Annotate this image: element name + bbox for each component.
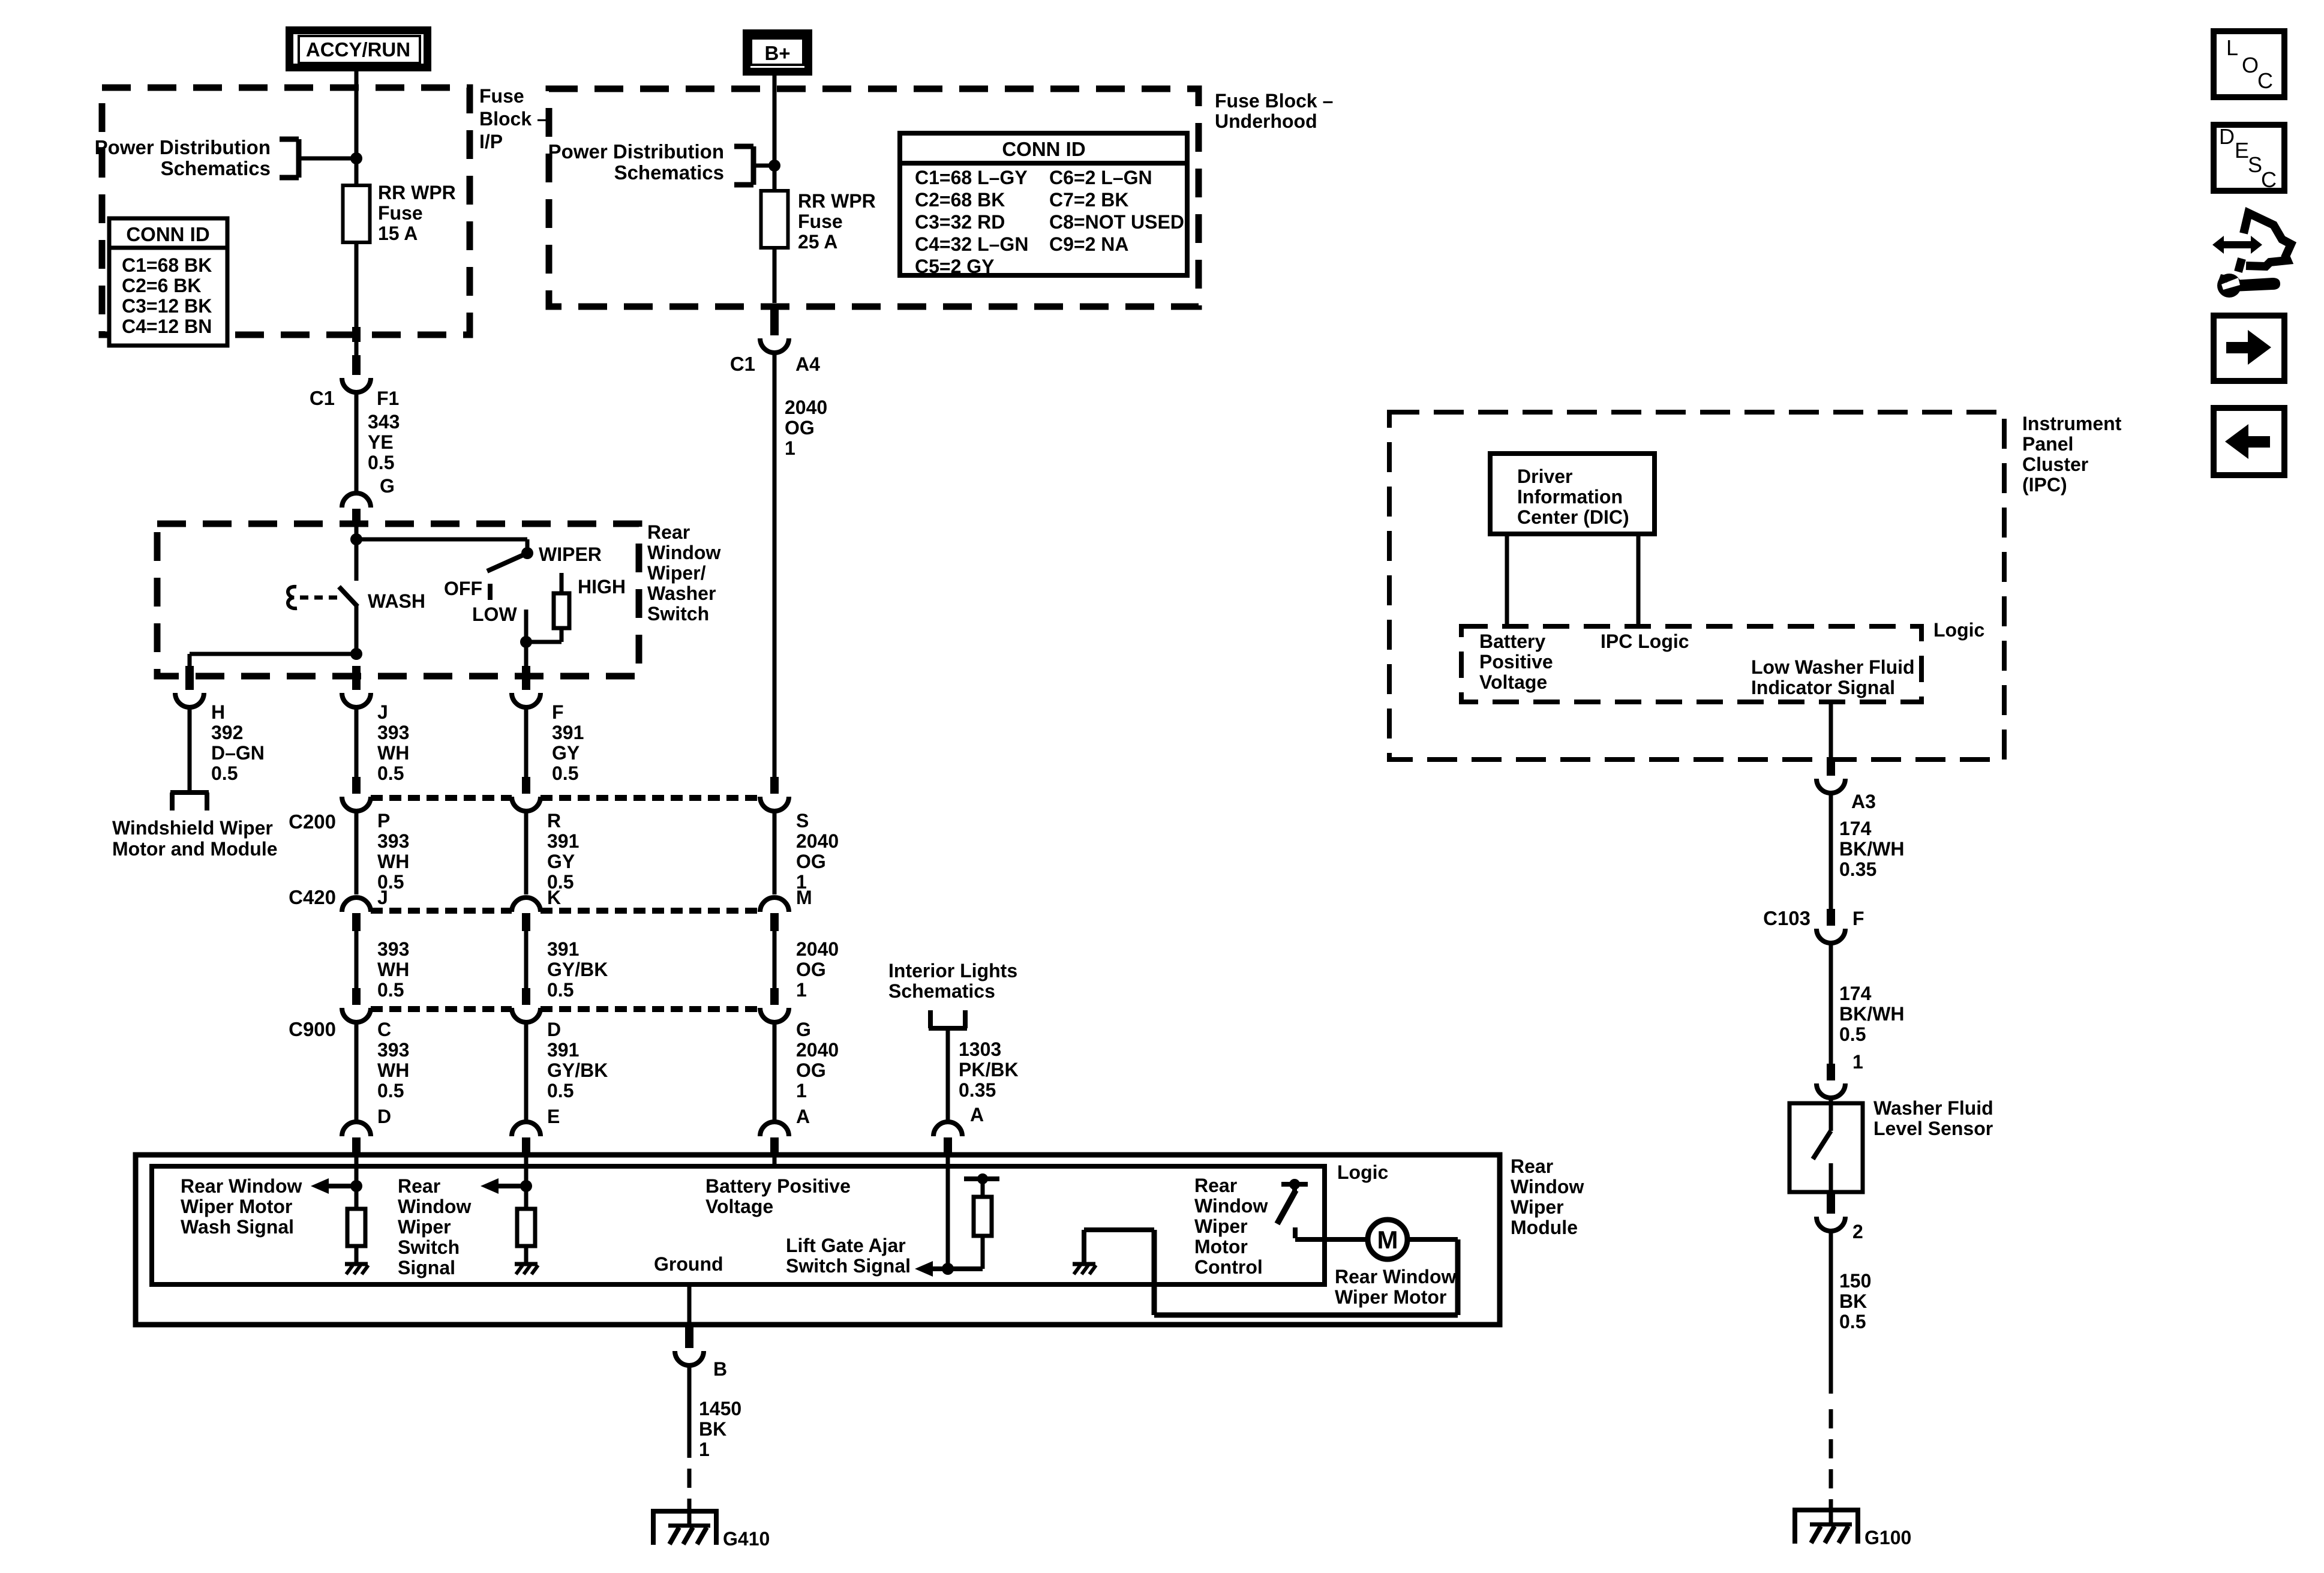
svg-text:D: D <box>547 1019 561 1040</box>
svg-text:OFF: OFF <box>444 578 482 599</box>
svg-text:(IPC): (IPC) <box>2022 474 2067 496</box>
svg-text:C3=12 BK: C3=12 BK <box>122 295 212 317</box>
svg-text:Wiper: Wiper <box>398 1216 451 1238</box>
svg-text:1: 1 <box>699 1439 710 1460</box>
svg-text:Rear: Rear <box>1194 1175 1237 1196</box>
svg-text:0.5: 0.5 <box>1839 1311 1866 1332</box>
svg-text:WH: WH <box>377 1059 409 1081</box>
svg-text:Level Sensor: Level Sensor <box>1873 1118 1993 1139</box>
svg-text:Information: Information <box>1517 486 1623 508</box>
svg-text:BK: BK <box>1839 1290 1867 1312</box>
svg-text:C3=32 RD: C3=32 RD <box>915 211 1005 233</box>
svg-text:OG: OG <box>796 959 826 980</box>
svg-text:Power Distribution: Power Distribution <box>548 140 724 163</box>
svg-text:C9=2 NA: C9=2 NA <box>1049 233 1129 255</box>
svg-text:2040: 2040 <box>796 938 839 960</box>
svg-text:0.5: 0.5 <box>377 763 404 784</box>
svg-text:174: 174 <box>1839 818 1872 839</box>
svg-text:Battery Positive: Battery Positive <box>705 1175 851 1197</box>
svg-text:Fuse: Fuse <box>479 85 524 107</box>
svg-text:2: 2 <box>1852 1221 1863 1242</box>
svg-text:393: 393 <box>377 1039 409 1061</box>
svg-text:WASH: WASH <box>368 590 425 612</box>
svg-text:Driver: Driver <box>1517 466 1573 487</box>
svg-text:CONN ID: CONN ID <box>126 223 209 245</box>
svg-text:HIGH: HIGH <box>578 576 626 598</box>
svg-text:393: 393 <box>377 722 409 743</box>
svg-text:391: 391 <box>547 938 579 960</box>
svg-text:G100: G100 <box>1864 1527 1911 1548</box>
svg-text:D: D <box>377 1106 391 1127</box>
svg-text:G: G <box>796 1019 811 1040</box>
svg-text:1: 1 <box>785 437 795 459</box>
svg-text:0.5: 0.5 <box>552 763 578 784</box>
svg-text:0.35: 0.35 <box>1839 858 1876 880</box>
svg-text:Module: Module <box>1511 1217 1578 1238</box>
svg-text:LOW: LOW <box>472 604 517 625</box>
svg-text:0.5: 0.5 <box>377 1080 404 1101</box>
svg-text:L: L <box>2226 35 2238 60</box>
svg-text:YE: YE <box>368 431 394 453</box>
svg-text:Washer Fluid: Washer Fluid <box>1873 1097 1993 1119</box>
svg-text:C: C <box>377 1019 391 1040</box>
svg-text:1: 1 <box>796 1080 807 1101</box>
svg-text:1: 1 <box>796 979 807 1001</box>
svg-text:M: M <box>796 887 812 908</box>
svg-text:I/P: I/P <box>479 131 503 152</box>
svg-text:Ground: Ground <box>654 1253 723 1275</box>
svg-text:Battery: Battery <box>1479 631 1545 652</box>
svg-text:C2=6 BK: C2=6 BK <box>122 275 202 296</box>
svg-text:GY: GY <box>547 851 575 872</box>
svg-text:F: F <box>1852 908 1864 929</box>
svg-text:Power Distribution: Power Distribution <box>95 136 271 158</box>
svg-text:RR WPR: RR WPR <box>798 190 876 212</box>
svg-text:O: O <box>2242 53 2259 77</box>
svg-text:PK/BK: PK/BK <box>959 1059 1019 1080</box>
svg-text:Logic: Logic <box>1337 1161 1388 1183</box>
svg-text:0.5: 0.5 <box>1839 1023 1866 1045</box>
svg-text:0.5: 0.5 <box>377 979 404 1001</box>
svg-text:OG: OG <box>785 417 815 439</box>
svg-text:C1: C1 <box>310 387 335 409</box>
svg-text:Underhood: Underhood <box>1215 110 1317 132</box>
svg-text:WH: WH <box>377 959 409 980</box>
svg-text:393: 393 <box>377 830 409 852</box>
svg-text:2040: 2040 <box>796 1039 839 1061</box>
svg-text:E: E <box>2235 138 2249 163</box>
svg-text:Low Washer Fluid: Low Washer Fluid <box>1751 656 1915 678</box>
svg-text:392: 392 <box>211 722 243 743</box>
svg-text:C1=68 L–GY: C1=68 L–GY <box>915 167 1028 188</box>
svg-text:Switch: Switch <box>647 603 709 625</box>
svg-text:CONN ID: CONN ID <box>1002 138 1085 160</box>
svg-text:BK/WH: BK/WH <box>1839 838 1904 860</box>
svg-text:Rear: Rear <box>1511 1155 1553 1177</box>
svg-text:Instrument: Instrument <box>2022 413 2122 434</box>
svg-text:C200: C200 <box>289 810 336 833</box>
svg-text:Rear Window: Rear Window <box>181 1175 302 1197</box>
svg-text:A: A <box>970 1104 984 1125</box>
svg-text:C103: C103 <box>1763 907 1810 929</box>
svg-text:174: 174 <box>1839 983 1872 1004</box>
svg-text:C2=68 BK: C2=68 BK <box>915 189 1005 211</box>
svg-text:Wiper Motor: Wiper Motor <box>1335 1286 1446 1308</box>
svg-text:393: 393 <box>377 938 409 960</box>
svg-text:Positive: Positive <box>1479 651 1553 673</box>
svg-text:1450: 1450 <box>699 1398 741 1419</box>
svg-text:G: G <box>380 475 395 497</box>
svg-text:Indicator Signal: Indicator Signal <box>1751 677 1895 698</box>
svg-text:Lift Gate Ajar: Lift Gate Ajar <box>786 1235 906 1256</box>
svg-text:Panel: Panel <box>2022 433 2073 455</box>
svg-text:391: 391 <box>547 1039 579 1061</box>
svg-text:1: 1 <box>1852 1051 1863 1073</box>
svg-text:Wiper: Wiper <box>1194 1215 1248 1237</box>
svg-text:C4=12 BN: C4=12 BN <box>122 316 212 337</box>
svg-text:Signal: Signal <box>398 1257 455 1278</box>
svg-text:Center (DIC): Center (DIC) <box>1517 506 1629 528</box>
svg-text:C7=2 BK: C7=2 BK <box>1049 189 1129 211</box>
svg-text:Control: Control <box>1194 1256 1263 1278</box>
svg-text:343: 343 <box>368 411 400 433</box>
svg-text:C1: C1 <box>730 353 755 375</box>
svg-text:M: M <box>1377 1226 1398 1254</box>
svg-text:Fuse: Fuse <box>798 211 843 232</box>
svg-text:Motor: Motor <box>1194 1236 1248 1257</box>
svg-text:Fuse Block –: Fuse Block – <box>1215 90 1333 112</box>
svg-text:Window: Window <box>398 1196 471 1217</box>
svg-text:C6=2 L–GN: C6=2 L–GN <box>1049 167 1152 188</box>
svg-text:150: 150 <box>1839 1270 1871 1292</box>
svg-text:Motor and Module: Motor and Module <box>112 838 278 860</box>
svg-text:C4=32 L–GN: C4=32 L–GN <box>915 233 1028 255</box>
svg-text:C420: C420 <box>289 886 336 908</box>
svg-text:Windshield Wiper: Windshield Wiper <box>112 817 273 839</box>
svg-text:K: K <box>547 887 561 908</box>
svg-text:BK/WH: BK/WH <box>1839 1003 1904 1025</box>
svg-text:0.5: 0.5 <box>547 1080 574 1101</box>
svg-text:E: E <box>547 1106 560 1127</box>
svg-text:0.35: 0.35 <box>959 1079 996 1101</box>
svg-text:Window: Window <box>1194 1195 1268 1217</box>
svg-text:Wiper/: Wiper/ <box>647 562 706 584</box>
svg-text:Washer: Washer <box>647 583 716 604</box>
svg-text:Rear Window: Rear Window <box>1335 1266 1457 1287</box>
svg-text:C: C <box>2261 167 2277 192</box>
svg-text:Voltage: Voltage <box>705 1196 773 1217</box>
svg-text:ACCY/RUN: ACCY/RUN <box>306 38 410 61</box>
svg-text:D: D <box>2219 124 2235 149</box>
svg-text:0.5: 0.5 <box>211 763 238 784</box>
svg-text:F: F <box>552 701 564 723</box>
svg-text:WH: WH <box>377 851 409 872</box>
svg-text:391: 391 <box>547 830 579 852</box>
svg-text:GY/BK: GY/BK <box>547 1059 608 1081</box>
svg-text:15 A: 15 A <box>378 223 418 244</box>
svg-text:Wiper: Wiper <box>1511 1196 1564 1218</box>
svg-text:Schematics: Schematics <box>888 980 995 1002</box>
svg-text:J: J <box>377 887 388 908</box>
svg-text:C8=NOT USED: C8=NOT USED <box>1049 211 1184 233</box>
svg-text:Window: Window <box>647 542 720 563</box>
svg-text:WIPER: WIPER <box>539 544 602 565</box>
svg-text:A: A <box>796 1106 810 1127</box>
svg-text:R: R <box>547 810 561 831</box>
svg-text:Rear: Rear <box>398 1175 440 1197</box>
svg-text:IPC Logic: IPC Logic <box>1601 631 1689 652</box>
svg-text:RR WPR: RR WPR <box>378 182 456 203</box>
svg-text:2040: 2040 <box>785 397 827 418</box>
svg-text:Wash Signal: Wash Signal <box>181 1216 294 1238</box>
svg-text:Cluster: Cluster <box>2022 454 2088 475</box>
svg-text:H: H <box>211 701 225 723</box>
svg-text:GY: GY <box>552 742 580 764</box>
svg-text:B: B <box>713 1358 727 1380</box>
svg-text:C1=68 BK: C1=68 BK <box>122 254 212 276</box>
svg-text:Window: Window <box>1511 1176 1584 1197</box>
svg-text:A4: A4 <box>795 353 820 375</box>
svg-text:D–GN: D–GN <box>211 742 265 764</box>
svg-text:25 A: 25 A <box>798 231 837 253</box>
svg-text:A3: A3 <box>1851 791 1876 812</box>
svg-text:C900: C900 <box>289 1018 336 1040</box>
svg-text:Wiper Motor: Wiper Motor <box>181 1196 292 1217</box>
svg-text:OG: OG <box>796 851 826 872</box>
svg-text:1303: 1303 <box>959 1038 1001 1060</box>
svg-text:GY/BK: GY/BK <box>547 959 608 980</box>
svg-text:391: 391 <box>552 722 584 743</box>
svg-text:Switch Signal: Switch Signal <box>786 1255 911 1277</box>
svg-text:F1: F1 <box>377 388 399 409</box>
svg-text:S: S <box>2248 152 2262 177</box>
svg-text:J: J <box>377 701 388 723</box>
svg-text:0.5: 0.5 <box>368 452 394 473</box>
svg-text:Rear: Rear <box>647 521 690 543</box>
svg-text:C5=2 GY: C5=2 GY <box>915 256 995 277</box>
svg-text:Interior Lights: Interior Lights <box>888 960 1017 981</box>
svg-text:Voltage: Voltage <box>1479 671 1547 693</box>
svg-text:Schematics: Schematics <box>161 157 271 179</box>
svg-text:Logic: Logic <box>1933 619 1984 641</box>
svg-text:Schematics: Schematics <box>614 161 724 184</box>
svg-text:Block –: Block – <box>479 108 548 130</box>
svg-text:Switch: Switch <box>398 1236 460 1258</box>
svg-text:0.5: 0.5 <box>547 979 574 1001</box>
svg-text:2040: 2040 <box>796 830 839 852</box>
svg-text:S: S <box>796 810 809 831</box>
svg-text:B+: B+ <box>764 42 790 64</box>
svg-text:Fuse: Fuse <box>378 202 423 224</box>
svg-text:P: P <box>377 810 390 831</box>
svg-text:C: C <box>2257 68 2273 93</box>
svg-text:G410: G410 <box>723 1528 770 1550</box>
svg-text:WH: WH <box>377 742 409 764</box>
svg-text:OG: OG <box>796 1059 826 1081</box>
svg-text:BK: BK <box>699 1418 726 1440</box>
